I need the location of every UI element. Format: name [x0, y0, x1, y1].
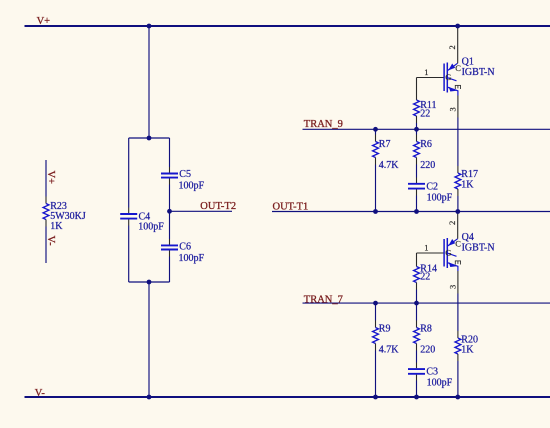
- svg-text:C: C: [455, 63, 461, 73]
- capacitor C3: [408, 363, 453, 398]
- Q1 channel bar: [446, 63, 448, 93]
- svg-text:1: 1: [424, 243, 428, 253]
- svg-text:100pF: 100pF: [427, 377, 453, 388]
- junction dot V- rail x458: [455, 395, 460, 400]
- Q1 pin 3 wire: [457, 96, 459, 118]
- Q1 collector diagonal with arrow: [448, 63, 458, 70]
- svg-text:C6: C6: [179, 242, 191, 253]
- svg-text:OUT-T1: OUT-T1: [273, 201, 309, 212]
- junction dot OUT-T1 x375: [373, 209, 378, 214]
- svg-text:2: 2: [447, 221, 457, 225]
- junction dot TRAN_9 x375: [373, 127, 378, 132]
- wire net OUT-T2: [170, 210, 233, 212]
- Q1 emitter diagonal with arrow: [448, 87, 458, 95]
- wire net TRAN_7: [303, 302, 550, 304]
- wire V- power rail: [25, 396, 550, 398]
- svg-text:3: 3: [448, 285, 458, 289]
- wire capacitor box top: [129, 137, 170, 139]
- resistor R17: [455, 166, 478, 212]
- resistor R7: [373, 129, 400, 211]
- junction dot box top: [147, 136, 152, 141]
- svg-text:22: 22: [420, 109, 430, 120]
- resistor R20: [455, 331, 478, 397]
- Q4 gate bar: [443, 239, 445, 267]
- capacitor C5: [161, 169, 205, 192]
- svg-text:2: 2: [447, 45, 457, 49]
- svg-text:22: 22: [420, 272, 430, 283]
- svg-text:3: 3: [448, 107, 458, 111]
- junction dot V- rail x375: [373, 395, 378, 400]
- svg-text:C: C: [455, 239, 461, 249]
- Q4 pin 2 wire: [457, 212, 459, 239]
- junction dot box bottom: [147, 280, 152, 285]
- Q1 pin 1 wire: [417, 77, 445, 79]
- svg-text:R9: R9: [379, 324, 391, 335]
- svg-text:4.7K: 4.7K: [379, 345, 400, 356]
- Q4 pin name E rotated: [455, 261, 461, 265]
- svg-text:1: 1: [424, 67, 428, 77]
- wire capacitor box bottom to V- rail: [148, 282, 150, 397]
- svg-text:100pF: 100pF: [427, 192, 453, 203]
- svg-text:C2: C2: [426, 181, 438, 192]
- wire capacitor box left branch: [128, 138, 130, 282]
- svg-text:V+: V+: [45, 171, 56, 185]
- svg-text:C5: C5: [179, 169, 191, 180]
- svg-text:V-: V-: [45, 236, 56, 247]
- Q4 channel bar: [446, 238, 448, 268]
- resistor R8: [414, 303, 436, 362]
- junction dot V- rail x149: [147, 395, 152, 400]
- transistor Q4 IGBT-N: [417, 212, 495, 294]
- svg-text:220: 220: [420, 345, 435, 356]
- Q1 middle stub: [448, 78, 457, 81]
- svg-text:R8: R8: [420, 324, 432, 335]
- resistor R14: [414, 253, 437, 303]
- svg-text:OUT-T2: OUT-T2: [200, 201, 236, 212]
- wire net TRAN_9: [303, 128, 550, 130]
- svg-text:TRAN_7: TRAN_7: [304, 294, 343, 305]
- svg-text:220: 220: [420, 160, 435, 171]
- junction dot V+ rail x458: [455, 24, 460, 29]
- svg-text:IGBT-N: IGBT-N: [462, 67, 495, 78]
- svg-text:100pF: 100pF: [179, 180, 205, 191]
- svg-text:R7: R7: [379, 139, 391, 150]
- svg-text:TRAN_9: TRAN_9: [304, 119, 343, 130]
- svg-text:G: G: [445, 72, 451, 82]
- wire Q4 emitter to R20: [457, 294, 459, 332]
- junction dot TRAN_7 x416: [414, 301, 419, 306]
- capacitor C4: [120, 212, 164, 233]
- svg-text:Q4: Q4: [462, 232, 474, 243]
- junction dot OUT-T1 x416: [414, 209, 419, 214]
- junction dot OUT-T2 at box: [167, 209, 172, 214]
- wire capacitor box bottom: [129, 281, 170, 283]
- Q4 pin 3 wire: [457, 271, 459, 294]
- svg-text:C3: C3: [426, 366, 438, 377]
- resistor R6: [414, 129, 436, 177]
- junction dot V+ rail x149: [147, 24, 152, 29]
- svg-text:G: G: [445, 248, 451, 258]
- svg-text:1K: 1K: [50, 221, 63, 232]
- svg-text:4.7K: 4.7K: [379, 160, 400, 171]
- junction dot TRAN_9 x416: [414, 127, 419, 132]
- wire capacitor box right branch: [169, 138, 171, 282]
- svg-text:100pF: 100pF: [179, 253, 205, 264]
- Q4 middle stub: [448, 253, 457, 256]
- wire Q1 emitter to R17: [457, 118, 459, 167]
- junction dot TRAN_7 x375: [373, 301, 378, 306]
- Q1 gate bar: [443, 64, 445, 92]
- transistor Q1 IGBT-N: [417, 27, 495, 118]
- svg-text:V+: V+: [37, 16, 51, 27]
- svg-text:V-: V-: [35, 388, 46, 399]
- svg-text:R17: R17: [461, 169, 478, 180]
- Q1 pin name E rotated: [455, 85, 461, 89]
- Q4 collector diagonal with arrow: [448, 239, 458, 246]
- Q1 pin 2 wire: [457, 27, 459, 64]
- wire V+ rail to capacitor box top: [148, 26, 150, 138]
- junction dot V- rail x416: [414, 395, 419, 400]
- capacitor C6: [161, 242, 205, 264]
- svg-text:R6: R6: [420, 139, 432, 150]
- resistor R9: [373, 303, 400, 397]
- junction dot OUT-T1 x458: [455, 209, 460, 214]
- resistor R11: [414, 78, 437, 130]
- svg-text:1K: 1K: [461, 344, 474, 355]
- resistor R23 with pins: [43, 160, 86, 263]
- svg-text:1K: 1K: [461, 179, 474, 190]
- Q4 emitter diagonal with arrow: [448, 263, 458, 271]
- svg-text:Q1: Q1: [462, 56, 474, 67]
- wire net OUT-T1: [272, 211, 550, 213]
- Q4 pin 1 wire: [417, 252, 445, 254]
- svg-text:IGBT-N: IGBT-N: [462, 242, 495, 253]
- wire V+ power rail: [25, 25, 550, 27]
- capacitor C2: [408, 178, 453, 212]
- svg-text:100pF: 100pF: [138, 222, 164, 233]
